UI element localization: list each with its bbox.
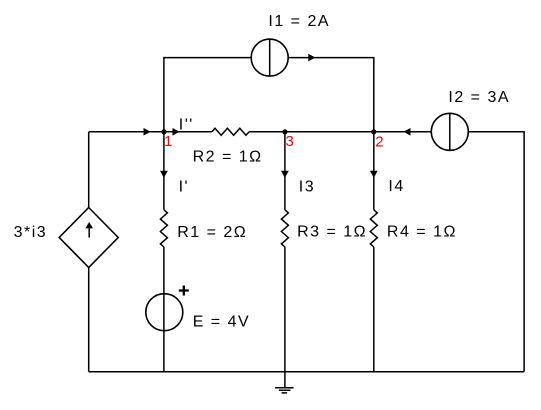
svg-text:E = 4V: E = 4V	[193, 314, 250, 331]
svg-text:I1 = 2A: I1 = 2A	[268, 13, 330, 30]
svg-text:I'': I''	[179, 116, 194, 133]
svg-text:3*i3: 3*i3	[14, 224, 48, 241]
svg-text:I4: I4	[388, 178, 404, 195]
svg-text:R4 = 1Ω: R4 = 1Ω	[387, 224, 457, 241]
svg-text:R3 = 1Ω: R3 = 1Ω	[297, 224, 367, 241]
svg-text:I2 = 3A: I2 = 3A	[448, 89, 510, 106]
svg-text:1: 1	[164, 133, 172, 150]
svg-text:I': I'	[179, 179, 190, 196]
svg-text:R1 = 2Ω: R1 = 2Ω	[177, 224, 247, 241]
svg-text:3: 3	[286, 133, 294, 150]
svg-text:2: 2	[375, 133, 383, 150]
svg-text:I3: I3	[299, 179, 315, 196]
svg-text:R2 = 1Ω: R2 = 1Ω	[193, 149, 263, 166]
